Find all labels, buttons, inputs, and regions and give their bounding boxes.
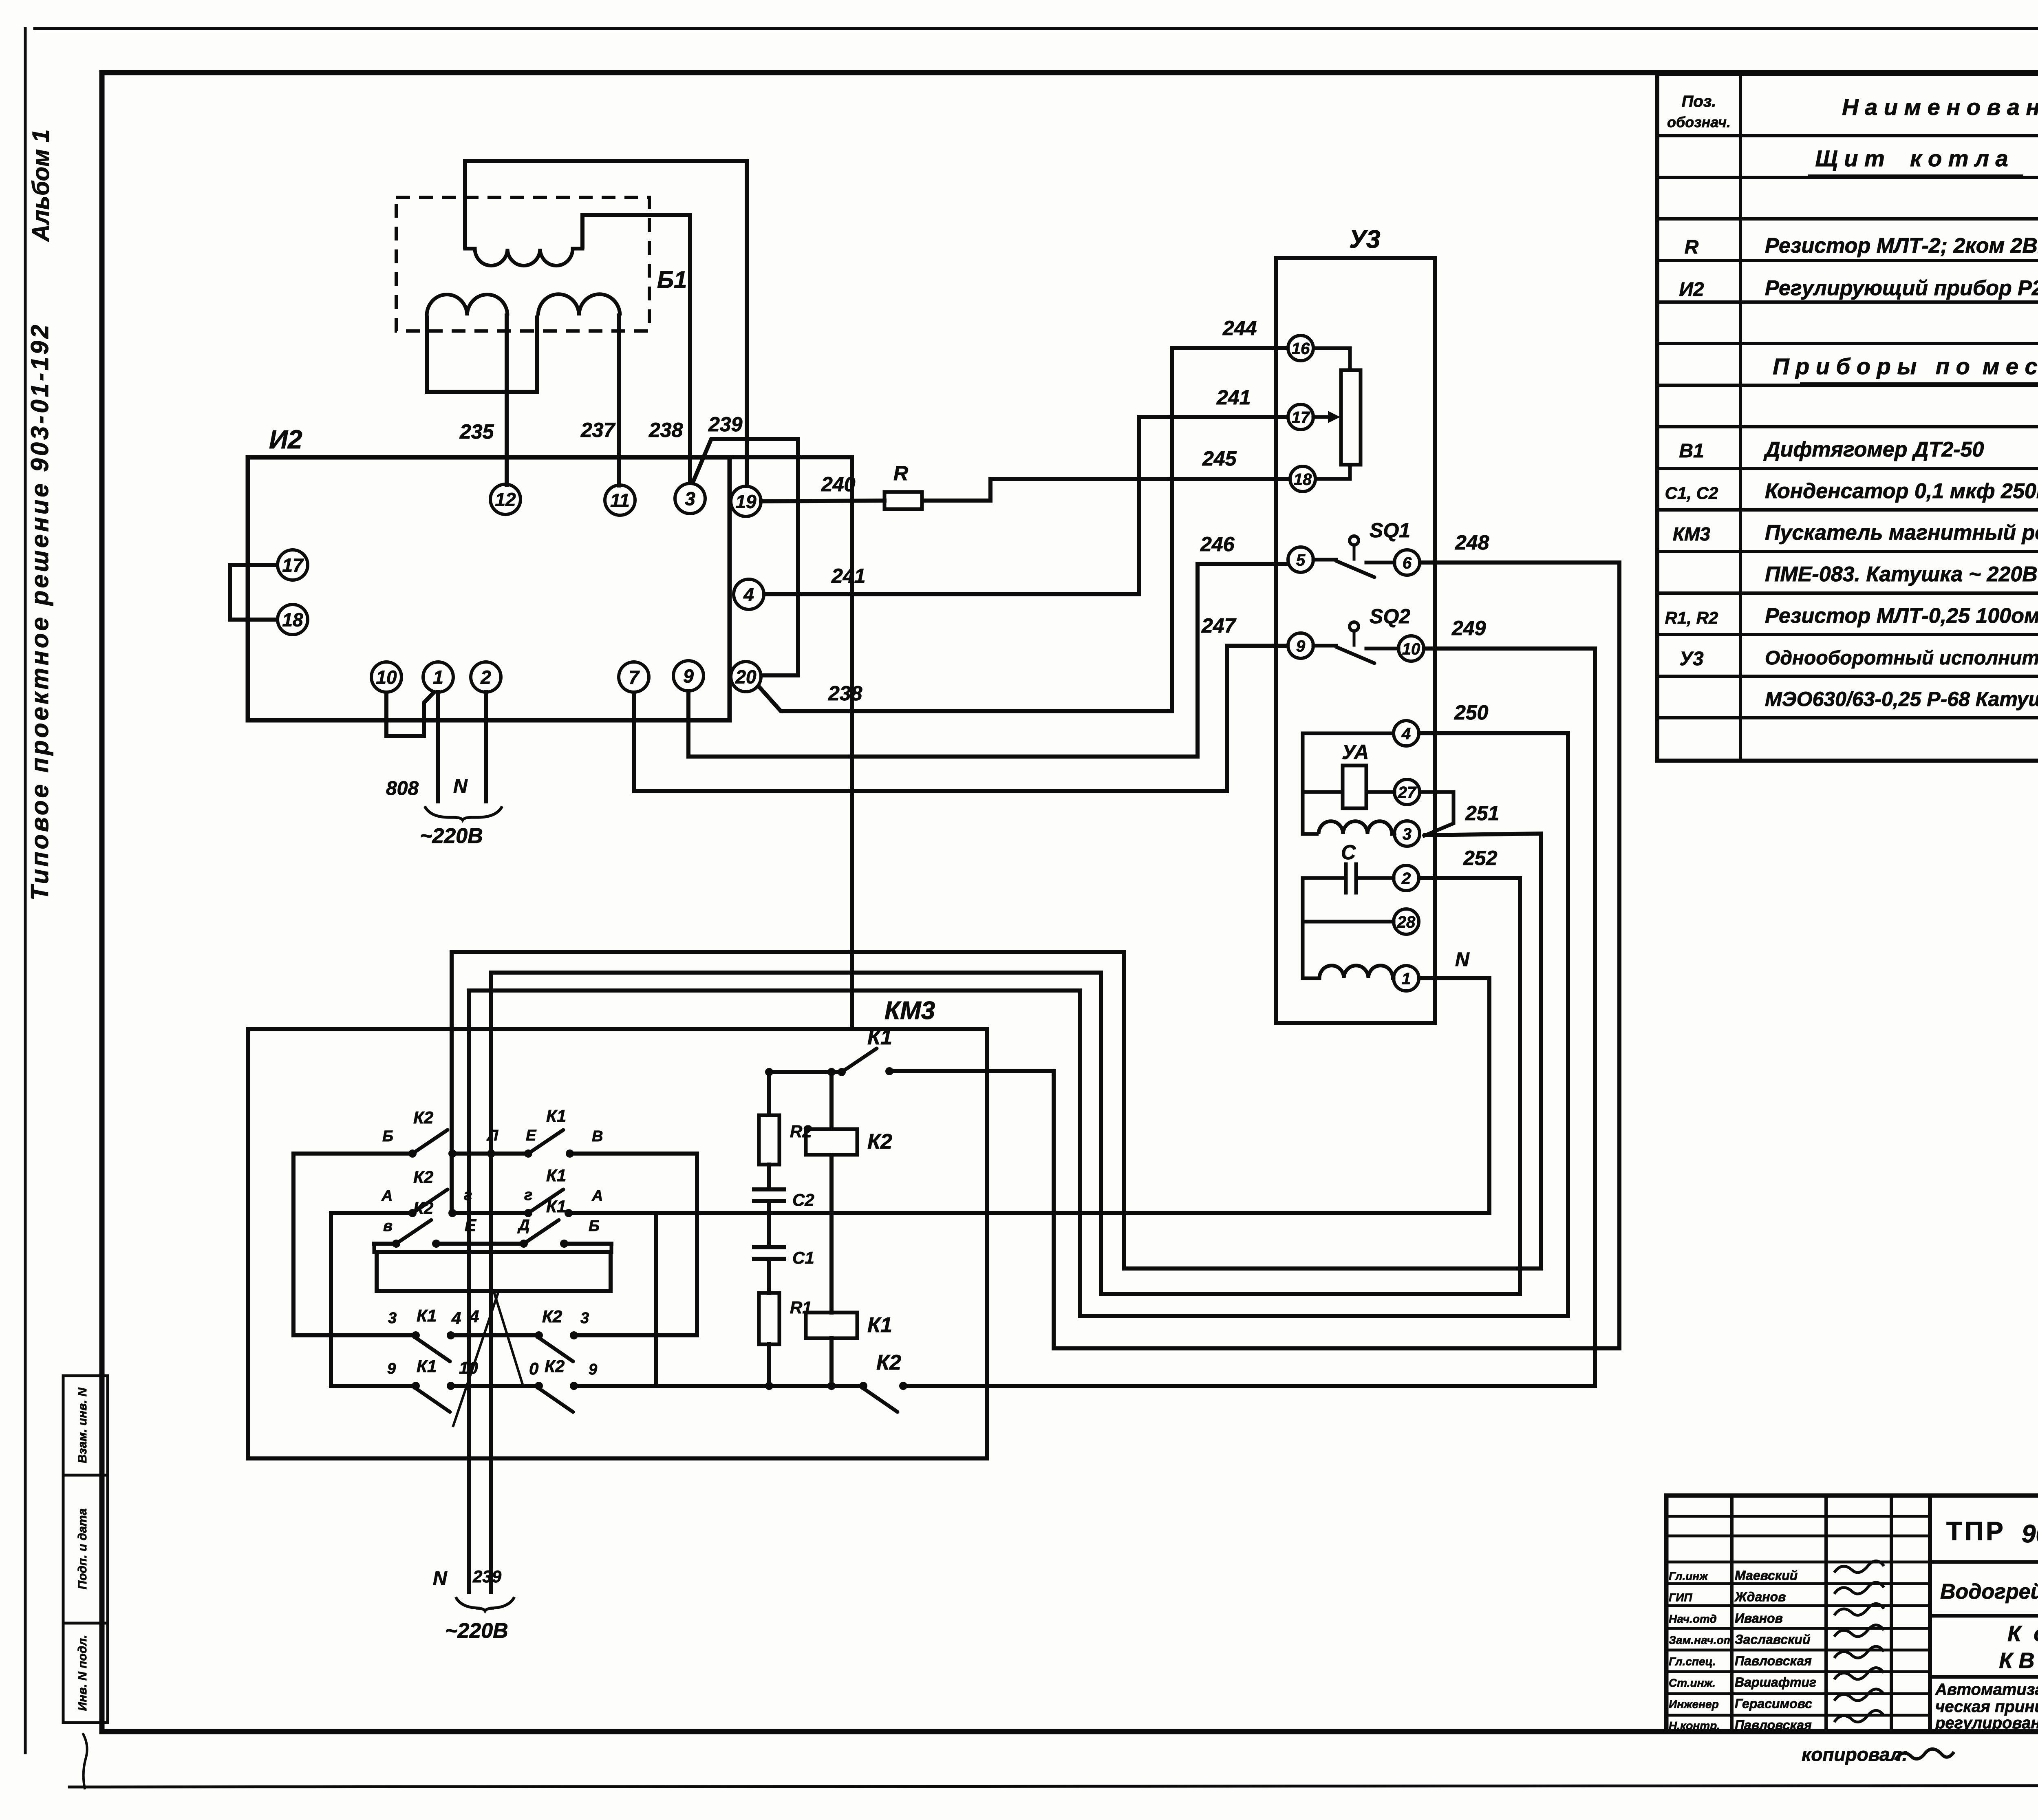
terminal 9 bbox=[673, 661, 704, 691]
svg-text:4: 4 bbox=[1401, 725, 1411, 743]
svg-text:SQ2: SQ2 bbox=[1370, 605, 1410, 628]
svg-text:N: N bbox=[453, 776, 468, 797]
svg-text:Заславский: Заславский bbox=[1735, 1632, 1811, 1647]
parts table grid bbox=[1657, 74, 2038, 761]
wire N from У3 terminal 1 to КМ3 row bbox=[1419, 978, 1489, 1213]
wire C1 to R1 bbox=[767, 1259, 771, 1293]
svg-text:Дифтягомер ДТ2-50: Дифтягомер ДТ2-50 bbox=[1763, 438, 1984, 461]
svg-text:2: 2 bbox=[480, 667, 491, 688]
svg-text:Инв. N подл.: Инв. N подл. bbox=[76, 1635, 89, 1711]
junction R1 bottom bbox=[765, 1382, 773, 1390]
terminal 28 bbox=[1394, 909, 1419, 934]
svg-text:Взам. инв. N: Взам. инв. N bbox=[76, 1387, 89, 1463]
svg-text:В: В bbox=[592, 1128, 603, 1145]
svg-text:МЭО630/63-0,25 Р-68 Катушка: МЭО630/63-0,25 Р-68 Катушка ~220В bbox=[1765, 688, 2038, 710]
svg-text:9: 9 bbox=[683, 666, 694, 687]
svg-text:903-01-192: 903-01-192 bbox=[2022, 1520, 2038, 1548]
svg-text:Автоматизация.Схема электри-: Автоматизация.Схема электри- bbox=[1935, 1681, 2038, 1699]
svg-text:К1: К1 bbox=[546, 1166, 566, 1185]
contactor КМ3 box bbox=[248, 1029, 987, 1458]
svg-text:Маевский: Маевский bbox=[1735, 1568, 1798, 1583]
svg-text:19: 19 bbox=[735, 491, 757, 512]
leader line to contact 0 bbox=[494, 1292, 523, 1384]
svg-text:И2: И2 bbox=[1679, 279, 1704, 300]
svg-text:N: N bbox=[433, 1568, 448, 1589]
svg-text:К1: К1 bbox=[417, 1306, 437, 1325]
contact в-К2 row3 bbox=[374, 1242, 396, 1246]
terminal 1 of У3 bbox=[1394, 966, 1419, 991]
svg-text:Подп. и дата: Подп. и дата bbox=[76, 1509, 89, 1590]
contact 9-К1-10 row5 bbox=[412, 1382, 420, 1390]
wire row2 right drop bbox=[654, 1213, 658, 1386]
terminal 18 bbox=[278, 604, 308, 635]
wire 239 from terminal 3 to terminal 20 bbox=[693, 439, 798, 675]
svg-text:Однооборотный исполнительный: Однооборотный исполнительный механизм bbox=[1765, 647, 2038, 669]
svg-text:248: 248 bbox=[1455, 531, 1489, 554]
svg-text:3: 3 bbox=[580, 1310, 589, 1327]
svg-text:Е: Е bbox=[465, 1216, 477, 1235]
wire from И2 box corner down to КМ3 bbox=[730, 457, 852, 1029]
svg-text:ческая принципиальная: ческая принципиальная bbox=[1935, 1698, 2038, 1716]
svg-text:Резистор МЛТ-2; 2ком 2Вт: Резистор МЛТ-2; 2ком 2Вт bbox=[1765, 234, 2038, 258]
brace 220V supply of И2 bbox=[425, 806, 502, 820]
svg-text:Конденсатор 0,1 мкф 250В: Конденсатор 0,1 мкф 250В bbox=[1765, 479, 2038, 503]
svg-text:УА: УА bbox=[1342, 741, 1369, 763]
contact К1 top bbox=[838, 1068, 846, 1076]
svg-text:Щ и т к о т л а: Щ и т к о т л а bbox=[1815, 146, 2008, 171]
svg-text:N: N bbox=[1455, 949, 1470, 971]
wire 251 from У3 terminal 3 bbox=[452, 834, 1541, 1268]
svg-text:К1: К1 bbox=[867, 1026, 892, 1049]
title block signature columns bbox=[1730, 1496, 1734, 1732]
contact А-К2 row2 bbox=[331, 1211, 412, 1215]
svg-text:Е: Е bbox=[526, 1127, 537, 1144]
wire row5 to R-chain bbox=[656, 1384, 863, 1388]
resistor R bbox=[884, 492, 922, 509]
terminal 11 bbox=[605, 485, 635, 515]
svg-text:238: 238 bbox=[648, 419, 683, 441]
svg-text:4: 4 bbox=[451, 1308, 461, 1328]
svg-text:239: 239 bbox=[708, 413, 743, 436]
transformer B1 secondary coil left bbox=[427, 295, 507, 315]
wire 16 to potentiometer bbox=[1313, 348, 1350, 370]
wire hook 27 to 3 bbox=[1420, 792, 1454, 836]
limit switch SQ2 bbox=[1313, 644, 1336, 648]
svg-text:ПМЕ-083. Катушка ~ 220В: ПМЕ-083. Катушка ~ 220В bbox=[1765, 563, 2038, 586]
transformer B1 primary coil bbox=[465, 247, 475, 251]
wire R2 to C2 bbox=[767, 1165, 771, 1189]
wire vertical to Г contact bbox=[450, 952, 454, 1213]
svg-text:1: 1 bbox=[433, 667, 443, 688]
svg-text:~220В: ~220В bbox=[445, 1619, 508, 1643]
svg-text:239: 239 bbox=[472, 1567, 502, 1586]
svg-text:Резистор МЛТ-0,25 100ом 25Вт: Резистор МЛТ-0,25 100ом 25Вт bbox=[1765, 604, 2038, 628]
svg-text:Иванов: Иванов bbox=[1735, 1611, 1783, 1626]
svg-text:ТПР: ТПР bbox=[1946, 1516, 2006, 1546]
svg-text:R: R bbox=[893, 462, 908, 485]
wire 808 bbox=[436, 692, 440, 801]
mechanical frame rectangle bbox=[377, 1252, 611, 1291]
wire 248 from У3 terminal 6 to КМ3 contact K1 bbox=[889, 563, 1619, 1348]
wire vertical 239 phase through КМ3 bbox=[489, 973, 493, 1592]
wire jumper 17-18 bbox=[230, 565, 278, 620]
wire C2 to C1 bbox=[767, 1201, 771, 1247]
resistor R1 bbox=[759, 1293, 779, 1344]
svg-text:Водогрейные котлы типа КВ-ГМ: Водогрейные котлы типа КВ-ГМ bbox=[1940, 1580, 2038, 1604]
terminal 3 bbox=[675, 483, 705, 514]
capacitor C2 bbox=[754, 1187, 784, 1191]
svg-text:А: А bbox=[591, 1187, 603, 1205]
terminal 17 of У3 bbox=[1288, 404, 1313, 430]
wire 238-244 from terminal 20 to У3 terminal 16 bbox=[757, 348, 1288, 711]
svg-text:18: 18 bbox=[1294, 470, 1312, 488]
svg-text:0: 0 bbox=[529, 1359, 538, 1378]
svg-text:С1: С1 bbox=[792, 1248, 814, 1267]
svg-text:Варшафтиг: Варшафтиг bbox=[1735, 1675, 1816, 1690]
motor winding coil upper bbox=[1319, 821, 1392, 834]
svg-text:С1, С2: С1, С2 bbox=[1665, 483, 1718, 503]
svg-text:Типовое проектное решение 9: Типовое проектное решение 903-01-192 bbox=[26, 322, 53, 900]
wire row1 right bracket bbox=[574, 1154, 697, 1335]
svg-text:SQ1: SQ1 bbox=[1370, 519, 1410, 542]
terminal 4 bbox=[734, 579, 764, 609]
svg-text:245: 245 bbox=[1202, 447, 1237, 470]
svg-text:Д: Д bbox=[517, 1217, 529, 1234]
solenoid УА bbox=[1343, 766, 1366, 808]
svg-text:240: 240 bbox=[821, 473, 856, 496]
terminal 4 of У3 bbox=[1394, 721, 1419, 746]
wire К2 coil to К1 coil bbox=[829, 1155, 834, 1313]
wire 252 from У3 terminal 2 bbox=[491, 878, 1520, 1294]
svg-text:237: 237 bbox=[580, 419, 616, 441]
handwritten mark bottom left bbox=[80, 1733, 90, 1789]
svg-text:11: 11 bbox=[610, 490, 630, 511]
relay coil К1 bbox=[806, 1313, 857, 1338]
wire 247 from И2 terminal 7 to У3 terminal 9 bbox=[634, 646, 1288, 791]
svg-text:238: 238 bbox=[828, 682, 862, 705]
actuator У3 box bbox=[1276, 258, 1435, 1023]
svg-text:235: 235 bbox=[459, 420, 494, 443]
contact row2 left bracket bbox=[331, 1213, 416, 1386]
svg-text:К В - Г М - 2 0: К В - Г М - 2 0 bbox=[1999, 1648, 2038, 1673]
svg-text:Альбом 1: Альбом 1 bbox=[28, 129, 54, 242]
terminal 20 bbox=[731, 662, 761, 692]
motor winding coil lower bbox=[1303, 977, 1319, 980]
terminal 9 of У3 bbox=[1288, 633, 1313, 658]
wire К1 coil to bottom row bbox=[829, 1338, 834, 1386]
svg-text:К1: К1 bbox=[546, 1106, 566, 1125]
svg-text:10: 10 bbox=[1402, 640, 1420, 658]
wire terminal 4 internal bracket bbox=[1303, 733, 1394, 834]
terminal 10 of У3 bbox=[1398, 636, 1424, 661]
svg-text:Инженер: Инженер bbox=[1669, 1698, 1719, 1710]
wire 249 from У3 terminal 10 to КМ3 contact K2 bbox=[903, 649, 1595, 1386]
terminal 17 bbox=[278, 550, 308, 580]
svg-text:К2: К2 bbox=[542, 1307, 562, 1326]
terminal 18 of У3 bbox=[1290, 466, 1315, 492]
limit switch SQ1 bbox=[1313, 558, 1336, 562]
contact Б-К2 row1 bbox=[408, 1149, 417, 1158]
terminal 3 of У3 bbox=[1394, 821, 1420, 846]
svg-text:7: 7 bbox=[629, 667, 640, 688]
terminal 1 bbox=[423, 662, 453, 692]
svg-text:R: R bbox=[1685, 236, 1699, 258]
wiper arrow from 17 bbox=[1313, 415, 1334, 419]
svg-text:К2: К2 bbox=[876, 1351, 901, 1374]
contact row4 wire bbox=[293, 1333, 416, 1337]
wire top contact row bbox=[769, 1070, 842, 1074]
svg-text:4: 4 bbox=[743, 584, 754, 605]
svg-text:К2: К2 bbox=[545, 1357, 565, 1376]
svg-text:И2: И2 bbox=[269, 425, 302, 454]
wire from B1 primary to net 238 bbox=[582, 215, 690, 483]
contact row3 stub right bbox=[610, 1244, 613, 1252]
svg-text:КМ3: КМ3 bbox=[884, 997, 935, 1025]
svg-text:Пускатель магнитный реверсив: Пускатель магнитный реверсивный bbox=[1765, 521, 2038, 545]
signature squiggles bbox=[1834, 1561, 1884, 1573]
contact 3-К1-4 row4 bbox=[412, 1331, 420, 1339]
svg-text:R1, R2: R1, R2 bbox=[1665, 608, 1718, 627]
svg-text:2: 2 bbox=[1401, 869, 1411, 887]
svg-text:28: 28 bbox=[1397, 913, 1416, 931]
terminal 6 bbox=[1394, 550, 1420, 575]
svg-text:Л: Л bbox=[486, 1127, 498, 1144]
terminal 2 bbox=[471, 662, 501, 692]
svg-text:9: 9 bbox=[589, 1361, 597, 1378]
svg-text:обознач.: обознач. bbox=[1667, 114, 1731, 130]
contact Г-К1 row2 bbox=[524, 1209, 532, 1217]
svg-text:10: 10 bbox=[459, 1358, 478, 1377]
svg-text:К1: К1 bbox=[867, 1313, 892, 1337]
svg-text:П р и б о р ы п о м е с т у: П р и б о р ы п о м е с т у bbox=[1773, 353, 2038, 379]
svg-text:3: 3 bbox=[388, 1310, 397, 1327]
wire УА left lead bbox=[1303, 790, 1343, 794]
contact Е-К1 row1 bbox=[524, 1149, 532, 1158]
terminal 19 bbox=[731, 486, 761, 516]
svg-text:20: 20 bbox=[735, 666, 757, 688]
svg-text:9: 9 bbox=[1296, 637, 1306, 655]
svg-text:Павловская: Павловская bbox=[1735, 1718, 1812, 1732]
svg-text:Н а и м е н о в а н и е: Н а и м е н о в а н и е bbox=[1842, 94, 2038, 120]
svg-text:К1: К1 bbox=[546, 1197, 566, 1216]
wire 240 bbox=[761, 501, 884, 501]
svg-text:3: 3 bbox=[685, 488, 695, 510]
svg-text:6: 6 bbox=[1403, 554, 1412, 572]
leader line to wire 4 bbox=[453, 1293, 498, 1426]
contact Д-К1 row3 bbox=[520, 1240, 528, 1248]
svg-text:К2: К2 bbox=[413, 1198, 433, 1218]
page outer border bottom bbox=[69, 1785, 2038, 1787]
svg-text:3: 3 bbox=[1403, 825, 1412, 843]
svg-text:Павловская: Павловская bbox=[1735, 1654, 1812, 1668]
contact row1 left bracket bbox=[293, 1154, 412, 1335]
page outer border top bbox=[35, 27, 2038, 30]
svg-text:5: 5 bbox=[1296, 551, 1306, 569]
svg-text:241: 241 bbox=[1216, 386, 1251, 409]
svg-text:~220В: ~220В bbox=[420, 824, 483, 848]
terminal 12 bbox=[490, 484, 521, 514]
stamp box Взам. инв. N bbox=[63, 1376, 108, 1475]
svg-text:Нач.отд: Нач.отд bbox=[1669, 1613, 1717, 1625]
svg-text:249: 249 bbox=[1451, 617, 1486, 640]
svg-text:9: 9 bbox=[387, 1360, 396, 1377]
contact К2 bottom bbox=[859, 1382, 867, 1390]
svg-text:К1: К1 bbox=[417, 1357, 437, 1376]
wire top loop of B1 to terminal 19 bbox=[465, 161, 747, 486]
svg-text:г: г bbox=[524, 1187, 532, 1204]
svg-text:С2: С2 bbox=[792, 1190, 814, 1209]
terminal 27 bbox=[1394, 779, 1420, 805]
terminal 10 bbox=[371, 662, 401, 692]
contact К2-3 row4 bbox=[535, 1331, 543, 1339]
svg-text:Б: Б bbox=[382, 1128, 393, 1145]
wire 246 from И2 terminal 9 to У3 terminal 5 bbox=[688, 564, 1288, 757]
svg-text:ГИП: ГИП bbox=[1669, 1591, 1692, 1604]
page outer border left bbox=[24, 29, 27, 1753]
svg-text:копировал:: копировал: bbox=[1802, 1744, 1908, 1765]
svg-text:17: 17 bbox=[282, 555, 304, 576]
wire vertical N through КМ3 bbox=[467, 991, 471, 1592]
wire terminal 2 bracket with capacitor C bbox=[1356, 876, 1394, 880]
wire N to И2 terminal 2 bbox=[484, 692, 488, 801]
svg-text:Жданов: Жданов bbox=[1734, 1589, 1786, 1604]
svg-text:К о т е л: К о т е л bbox=[2007, 1621, 2038, 1646]
transformer B1 secondary coil right bbox=[538, 294, 620, 315]
contact row5 wire bbox=[331, 1384, 416, 1388]
junction R-chain top bbox=[765, 1068, 773, 1076]
wire row2 extension to N bbox=[569, 1211, 1489, 1215]
svg-text:Б1: Б1 bbox=[657, 267, 687, 293]
title block outline bbox=[1666, 1496, 2038, 1732]
svg-text:16: 16 bbox=[1292, 340, 1310, 357]
wire terminal 28 lead bbox=[1303, 920, 1394, 924]
svg-text:4: 4 bbox=[469, 1307, 479, 1326]
svg-text:10: 10 bbox=[376, 667, 397, 688]
svg-text:В1: В1 bbox=[1679, 440, 1704, 462]
terminal 5 bbox=[1288, 547, 1313, 572]
wire 237 bbox=[617, 315, 621, 485]
svg-text:Зам.нач.от: Зам.нач.от bbox=[1669, 1634, 1734, 1646]
contact row3 stub left bbox=[373, 1244, 376, 1252]
svg-text:У3: У3 bbox=[1349, 225, 1380, 254]
wire 18 to potentiometer bbox=[1315, 465, 1350, 479]
wire R1 to bottom row bbox=[767, 1344, 771, 1386]
wire 241 from И2 terminal 4 to У3 terminal 17 bbox=[764, 417, 1288, 594]
wire 250 from У3 terminal 4 bbox=[469, 733, 1568, 1316]
svg-text:18: 18 bbox=[282, 609, 303, 631]
svg-text:Гл.инж: Гл.инж bbox=[1669, 1570, 1708, 1582]
svg-text:Н.контр.: Н.контр. bbox=[1669, 1719, 1720, 1732]
wire УА to terminal 27 bbox=[1366, 790, 1394, 794]
svg-text:К2: К2 bbox=[413, 1108, 433, 1127]
wire 235 bbox=[505, 315, 509, 485]
wire link 10 to 1 bbox=[386, 691, 435, 736]
svg-text:Б: Б bbox=[589, 1218, 600, 1235]
wire U-link between secondary windings bbox=[427, 315, 537, 392]
svg-text:регулирования разрежения: регулирования разрежения bbox=[1935, 1714, 2038, 1732]
stamp box Инв. N подл. bbox=[63, 1623, 108, 1723]
junction К1 coil bottom bbox=[827, 1382, 836, 1390]
regulator И2 box bbox=[248, 457, 730, 720]
svg-text:Поз.: Поз. bbox=[1682, 93, 1716, 110]
junction К2 coil top bbox=[827, 1068, 836, 1076]
svg-text:КМ3: КМ3 bbox=[1673, 523, 1711, 545]
capacitor C1 bbox=[754, 1245, 784, 1249]
resistor R2 bbox=[767, 1072, 771, 1115]
title block signature rows bbox=[1666, 1515, 1930, 1518]
svg-text:К2: К2 bbox=[413, 1167, 433, 1187]
wire 245 from R to У3 terminal 18 bbox=[922, 479, 1290, 501]
svg-text:241: 241 bbox=[831, 565, 865, 587]
svg-text:Регулирующий прибор Р25 1 2: Регулирующий прибор Р25 1 2 bbox=[1765, 276, 2038, 300]
svg-text:R2: R2 bbox=[790, 1122, 812, 1141]
svg-text:252: 252 bbox=[1463, 847, 1498, 869]
svg-text:Гл.спец.: Гл.спец. bbox=[1669, 1655, 1716, 1668]
junction Л bbox=[487, 1149, 495, 1158]
transformer B1 dashed box bbox=[396, 197, 649, 331]
potentiometer of У3 bbox=[1341, 370, 1361, 465]
brace 220V bottom bbox=[456, 1597, 514, 1611]
contact 0-К2-9 row5 bbox=[535, 1382, 543, 1390]
wire N exit bottom bbox=[467, 1458, 471, 1592]
svg-text:251: 251 bbox=[1465, 802, 1499, 825]
svg-text:C: C bbox=[1341, 841, 1356, 864]
title block right dividers bbox=[1930, 1560, 2038, 1564]
svg-text:1: 1 bbox=[1402, 970, 1411, 988]
svg-text:Герасимовс: Герасимовс bbox=[1735, 1696, 1812, 1711]
terminal 16 bbox=[1288, 335, 1313, 361]
terminal 2 of У3 bbox=[1394, 865, 1419, 891]
svg-text:250: 250 bbox=[1454, 701, 1489, 724]
svg-text:17: 17 bbox=[1292, 408, 1310, 426]
svg-text:27: 27 bbox=[1398, 783, 1417, 801]
svg-text:К2: К2 bbox=[867, 1130, 892, 1154]
svg-text:У3: У3 bbox=[1679, 648, 1704, 670]
stamp box Подп. и дата bbox=[63, 1475, 108, 1623]
relay coil К2 bbox=[829, 1072, 834, 1129]
svg-text:Ст.инж.: Ст.инж. bbox=[1669, 1677, 1716, 1689]
svg-text:А: А bbox=[381, 1187, 393, 1205]
svg-text:808: 808 bbox=[386, 778, 419, 799]
svg-text:244: 244 bbox=[1222, 317, 1257, 340]
svg-text:12: 12 bbox=[495, 489, 516, 510]
svg-text:246: 246 bbox=[1200, 533, 1235, 556]
svg-text:г: г bbox=[464, 1187, 472, 1204]
svg-text:247: 247 bbox=[1201, 614, 1237, 637]
svg-text:в: в bbox=[383, 1218, 393, 1235]
terminal 7 bbox=[619, 662, 649, 692]
